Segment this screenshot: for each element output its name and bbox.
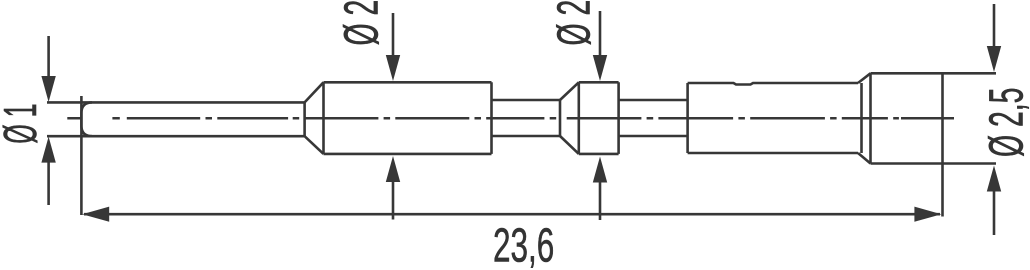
neck 2 top bbox=[619, 99, 688, 102]
arrowhead Ø2,5 top (down) bbox=[987, 46, 1001, 72]
arrowhead Ø2 second bottom (up) bbox=[593, 157, 607, 183]
pin rounded tip bbox=[81, 102, 92, 136]
cap chamfer top bbox=[858, 73, 871, 83]
contact pin bottom outline with Ø1 extension line bbox=[47, 135, 305, 138]
svg-text:Ø 2,5: Ø 2,5 bbox=[980, 88, 1030, 157]
arrowhead 23,6 left bbox=[82, 207, 109, 222]
cap left face bbox=[869, 73, 872, 163]
arrowhead Ø1 top (down) bbox=[41, 76, 55, 102]
svg-text:Ø 1: Ø 1 bbox=[0, 103, 46, 143]
svg-text:Ø 2: Ø 2 bbox=[549, 0, 601, 45]
long cylinder right face bbox=[860, 83, 863, 153]
pin tip face / 23,6 left extension line bbox=[80, 96, 83, 215]
arrowhead 23,6 right bbox=[914, 207, 941, 222]
cone top slant bbox=[560, 82, 579, 100]
long cylinder left face bbox=[686, 83, 689, 153]
label Ø2,5 bbox=[980, 88, 1030, 157]
cap chamfer bottom bbox=[858, 153, 871, 164]
arrowhead Ø1 bottom (up) bbox=[41, 137, 55, 163]
cone bottom slant bbox=[560, 136, 579, 154]
dimension 23,6 line bbox=[84, 213, 940, 216]
label Ø1 bbox=[0, 103, 46, 143]
cap bottom line with Ø2,5 extension bbox=[871, 162, 997, 165]
arrowhead Ø2,5 bottom (up) bbox=[987, 166, 1001, 192]
neck 1 bottom bbox=[492, 135, 561, 138]
centerline bbox=[67, 117, 954, 120]
long cylinder top with notch bbox=[688, 83, 858, 85]
collar piece bbox=[579, 82, 619, 154]
dimension Ø2 first line top bbox=[392, 13, 395, 57]
body cylinder 1 bbox=[324, 82, 492, 154]
dimension Ø2,5 line bottom bbox=[993, 191, 996, 235]
label Ø2 second bbox=[549, 0, 601, 45]
contact pin top outline with Ø1 extension line bbox=[47, 101, 305, 104]
label Ø2 first bbox=[335, 0, 389, 46]
dimension Ø2 first line bottom bbox=[392, 180, 395, 220]
dimension Ø1 line bottom bbox=[47, 160, 50, 205]
neck 1 top bbox=[492, 99, 561, 102]
svg-text:Ø 2: Ø 2 bbox=[335, 0, 389, 46]
cap right face / 23,6 right extension line bbox=[941, 73, 944, 216]
taper shoulder face bbox=[303, 102, 306, 136]
dimension Ø2 second line top bbox=[599, 11, 602, 56]
dimension Ø1 line top bbox=[47, 36, 50, 78]
taper bottom slant bbox=[305, 136, 324, 154]
cap top line with Ø2,5 extension bbox=[871, 72, 997, 75]
neck 2 bottom bbox=[619, 135, 688, 138]
cone base bbox=[577, 82, 580, 154]
neck 1 end face bbox=[559, 100, 562, 136]
arrowhead Ø2 first bottom (up) bbox=[386, 156, 400, 182]
dimension Ø2,5 line top bbox=[993, 4, 996, 46]
arrowhead Ø2 first top (down) bbox=[386, 55, 400, 81]
svg-text:23,6: 23,6 bbox=[493, 218, 554, 270]
dimension Ø2 second line bottom bbox=[599, 180, 602, 220]
label 23,6 bbox=[493, 218, 554, 270]
long cylinder bottom bbox=[688, 152, 858, 155]
arrowhead Ø2 second top (down) bbox=[593, 55, 607, 81]
taper top slant bbox=[305, 82, 324, 102]
